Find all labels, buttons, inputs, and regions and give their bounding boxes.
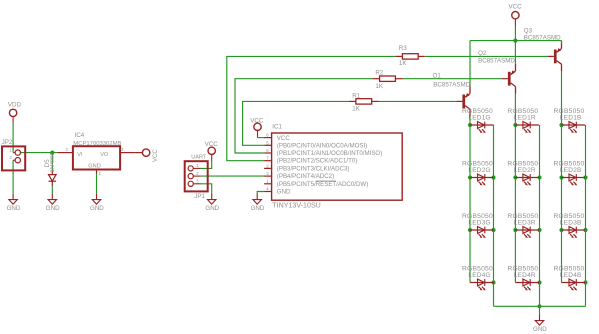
svg-text:3: 3 (196, 179, 199, 184)
svg-text:VCC: VCC (205, 141, 219, 148)
svg-text:GND: GND (46, 205, 60, 212)
svg-text:GND: GND (533, 326, 547, 333)
svg-text:GND: GND (251, 205, 265, 212)
svg-text:GND: GND (277, 189, 291, 196)
svg-text:GND: GND (7, 205, 21, 212)
svg-text:VCC: VCC (277, 135, 291, 142)
svg-text:GND: GND (90, 205, 104, 212)
svg-text:2: 2 (196, 171, 199, 176)
svg-text:MCP17003302MB: MCP17003302MB (73, 141, 121, 147)
svg-text:3: 3 (266, 171, 269, 176)
svg-text:4: 4 (266, 187, 269, 192)
svg-text:LED4G: LED4G (468, 272, 490, 279)
svg-text:IC1: IC1 (272, 124, 282, 131)
svg-text:LED1G: LED1G (468, 115, 490, 122)
svg-text:VDD: VDD (8, 101, 22, 108)
svg-text:LED2G: LED2G (468, 167, 490, 174)
svg-text:LED3B: LED3B (560, 220, 582, 227)
svg-text:VCC: VCC (509, 3, 523, 10)
svg-text:6: 6 (266, 148, 269, 153)
svg-text:1: 1 (266, 179, 269, 184)
svg-text:Q3: Q3 (524, 27, 533, 34)
svg-text:JP1: JP1 (194, 193, 205, 200)
svg-text:5: 5 (266, 140, 269, 145)
svg-text:Q2: Q2 (478, 50, 487, 57)
svg-text:UART: UART (191, 155, 207, 161)
svg-text:(PB3/PCINT3/CLKI/ADC3): (PB3/PCINT3/CLKI/ADC3) (277, 165, 350, 172)
svg-text:2: 2 (66, 147, 69, 152)
svg-text:2: 2 (266, 163, 269, 168)
svg-text:LED4B: LED4B (560, 272, 582, 279)
svg-text:JP2: JP2 (2, 139, 13, 146)
svg-text:LED3G: LED3G (468, 220, 490, 227)
svg-text:IC4: IC4 (75, 132, 85, 139)
svg-text:1K: 1K (375, 83, 383, 90)
svg-text:BC857ASMD: BC857ASMD (524, 35, 561, 42)
svg-text:VI: VI (77, 152, 83, 158)
svg-text:BC857ASMD: BC857ASMD (433, 81, 470, 88)
svg-text:1: 1 (99, 171, 102, 176)
svg-text:(PB1/PCINT1/AIN1/OC0B/INT0/MIS: (PB1/PCINT1/AIN1/OC0B/INT0/MISO) (277, 150, 382, 157)
svg-text:R1: R1 (352, 92, 360, 99)
svg-text:1N4001: 1N4001 (50, 153, 56, 173)
svg-text:1: 1 (196, 163, 199, 168)
svg-text:LED4R: LED4R (514, 272, 536, 279)
svg-text:1K: 1K (352, 106, 360, 113)
svg-text:LED2R: LED2R (514, 167, 536, 174)
svg-text:2: 2 (9, 155, 12, 160)
svg-text:GND: GND (88, 164, 100, 170)
svg-text:VCC: VCC (153, 149, 159, 162)
svg-text:1: 1 (9, 147, 12, 152)
svg-text:R3: R3 (399, 45, 407, 52)
svg-text:BC857ASMD: BC857ASMD (478, 57, 515, 64)
svg-text:VCC: VCC (250, 118, 264, 125)
svg-text:LED1B: LED1B (560, 115, 582, 122)
svg-text:LED1R: LED1R (514, 115, 536, 122)
svg-text:VO: VO (100, 152, 109, 158)
svg-text:1K: 1K (399, 60, 407, 67)
svg-text:GND: GND (205, 205, 219, 212)
svg-text:(PB4/PCINT4/ADC2): (PB4/PCINT4/ADC2) (277, 173, 334, 180)
svg-text:8: 8 (266, 133, 269, 138)
svg-text:7: 7 (266, 156, 269, 161)
svg-text:Q1: Q1 (433, 72, 442, 79)
svg-text:3: 3 (121, 147, 124, 152)
svg-text:(PB5/PCINT5/RESET/ADC0/DW): (PB5/PCINT5/RESET/ADC0/DW) (277, 181, 368, 188)
svg-text:(PB0/PCINT0/AIN0/OC0A/MOSI): (PB0/PCINT0/AIN0/OC0A/MOSI) (277, 142, 367, 149)
svg-text:(PB2/PCINT2/SCK/ADC1/T0): (PB2/PCINT2/SCK/ADC1/T0) (277, 158, 358, 165)
svg-text:R2: R2 (375, 69, 383, 76)
svg-text:TINY13V-10SU: TINY13V-10SU (272, 201, 321, 209)
svg-text:LED3R: LED3R (514, 220, 536, 227)
svg-text:LED2B: LED2B (560, 167, 582, 174)
